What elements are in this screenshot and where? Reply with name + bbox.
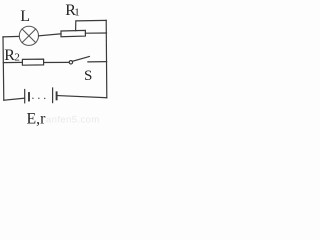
svg-text:E,r: E,r [27,111,47,128]
wire: left vertical rail [2,37,5,100]
battery cell 1 long plate [24,90,26,103]
battery cell 2 long plate [52,88,54,103]
svg-text:1: 1 [74,7,80,19]
wire: R1 right terminal to right rail [85,32,106,34]
switch S pivot [69,61,72,64]
battery cell 1 short plate [28,93,30,101]
wire: R2 row left segment [3,61,22,63]
wire: R1 slider tap up and over [76,20,107,30]
wire: top-left horizontal to lamp [3,35,19,38]
resistor R2 [22,59,43,65]
lamp L [19,26,38,45]
svg-text:anfen5.com: anfen5.com [46,115,100,126]
wire: R2 to switch [44,61,70,63]
svg-text:L: L [20,8,30,25]
resistor R1 [61,30,85,36]
battery dots [32,97,45,99]
background [0,0,109,129]
svg-text:S: S [84,68,92,84]
switch S blade [73,57,90,62]
battery cell 2 short plate [56,92,58,99]
wire: switch to right rail [88,61,107,63]
wire: lamp to R1 [39,34,62,36]
wire: bottom-left rail to battery [4,98,25,100]
wire: battery to bottom-right rail [58,96,107,98]
wire: right vertical rail [105,20,108,97]
svg-text:2: 2 [14,51,20,63]
